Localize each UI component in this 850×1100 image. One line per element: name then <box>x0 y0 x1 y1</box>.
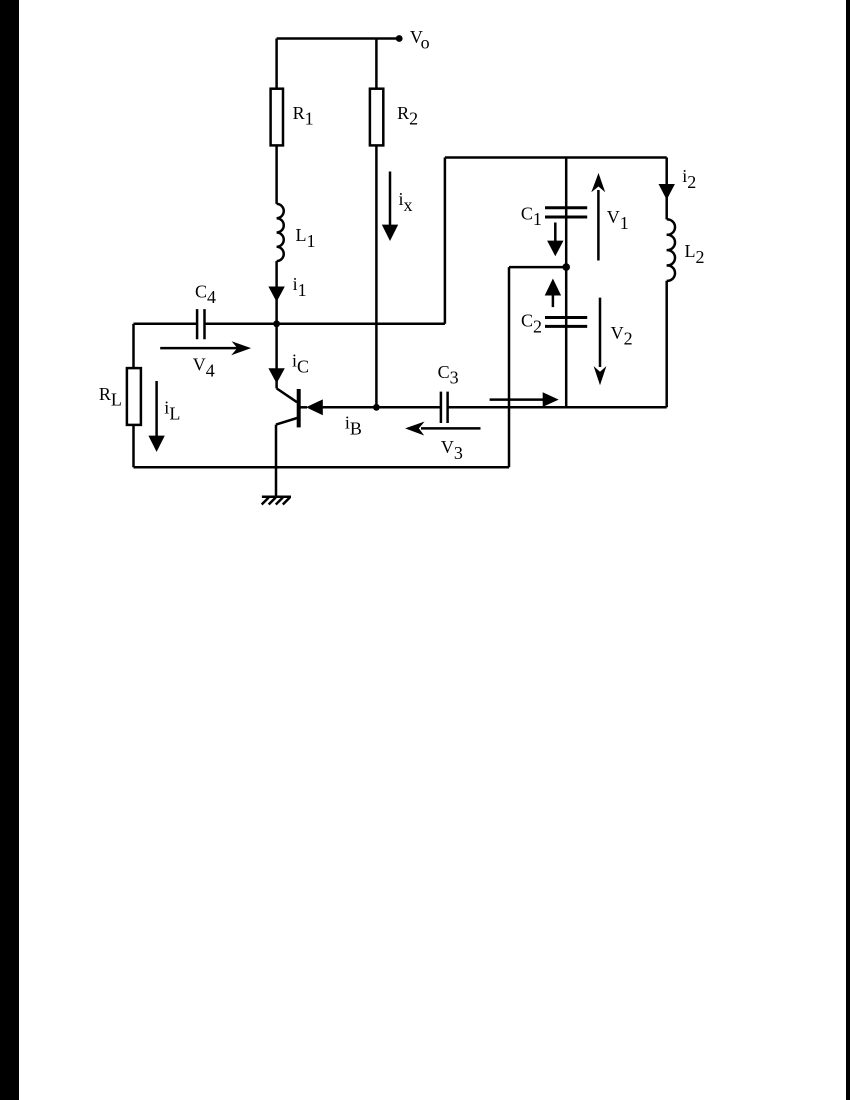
arrowhead above C2 <box>545 279 561 296</box>
arrowhead below C1 <box>547 241 563 257</box>
transistor Q1 base lead <box>300 406 307 409</box>
wire left feedback riser <box>508 267 511 467</box>
arrow V1 line <box>597 190 600 261</box>
wire RL top lead <box>132 324 135 368</box>
node i1-C4 dot <box>273 320 280 327</box>
node Vo dot <box>396 35 403 42</box>
arrow feedback line <box>490 398 544 401</box>
capacitor C2 <box>545 318 587 327</box>
wire right branch top <box>665 158 668 220</box>
arrowhead i2 <box>659 184 675 200</box>
arrow iL line <box>155 381 158 437</box>
arrowhead i1 <box>268 287 284 302</box>
inductor L1 <box>277 204 284 261</box>
scan border right <box>846 0 850 1100</box>
wire collector from node <box>275 324 278 389</box>
arrowhead ix <box>382 225 398 241</box>
wire right branch bottom <box>665 281 668 408</box>
wire center branch C1 C2 <box>565 158 568 408</box>
wire base row to C3 <box>323 406 441 409</box>
transistor Q1 base bar <box>297 389 301 427</box>
wire right riser to top rail <box>444 158 447 324</box>
arrow ix line <box>389 172 392 227</box>
wire R2 top lead <box>375 39 378 89</box>
wire C3 to tank bottom rail <box>448 406 667 409</box>
wire R1 leads <box>275 39 278 204</box>
capacitor C3 <box>441 392 448 423</box>
capacitor C4 <box>197 309 204 339</box>
arrowhead V4 stealth <box>231 341 251 355</box>
arrowhead iL <box>148 436 164 452</box>
wire node2 branch left <box>509 266 566 269</box>
transistor Q1 emitter slant <box>276 418 299 425</box>
arrow V2 line <box>599 298 602 367</box>
arrowhead base iB <box>306 399 323 415</box>
wire top rail Vo <box>277 37 399 40</box>
arrow V4 line <box>160 347 238 350</box>
inductor L2 <box>667 219 675 280</box>
wire L1 to node <box>275 261 278 324</box>
wire bottom return <box>134 466 510 469</box>
wire emitter to ground <box>275 425 278 497</box>
wire RL bottom lead <box>132 425 135 467</box>
wire R2 bottom to base node <box>375 145 378 407</box>
arrowhead iC <box>268 368 284 383</box>
arrow V3 line <box>421 427 481 430</box>
arrow below C1 line <box>554 223 557 242</box>
arrow above C2 line <box>552 295 555 308</box>
wire C4 row <box>134 323 445 326</box>
node C1-C2 dot <box>562 263 570 271</box>
ground <box>262 497 291 505</box>
resistor R2 <box>370 89 383 146</box>
capacitor C1 <box>545 208 587 217</box>
resistor R1 <box>271 89 283 146</box>
arrowhead feedback right <box>543 392 559 407</box>
arrowhead V1 stealth <box>591 173 605 192</box>
resistor RL <box>127 368 141 425</box>
arrowhead V2 stealth <box>594 366 607 385</box>
node base dot <box>373 404 380 411</box>
arrowhead V3 stealth <box>405 422 425 436</box>
wire top rail of tank <box>445 156 667 159</box>
transistor Q1 collector slant <box>277 388 297 402</box>
scan border left <box>0 0 19 1100</box>
